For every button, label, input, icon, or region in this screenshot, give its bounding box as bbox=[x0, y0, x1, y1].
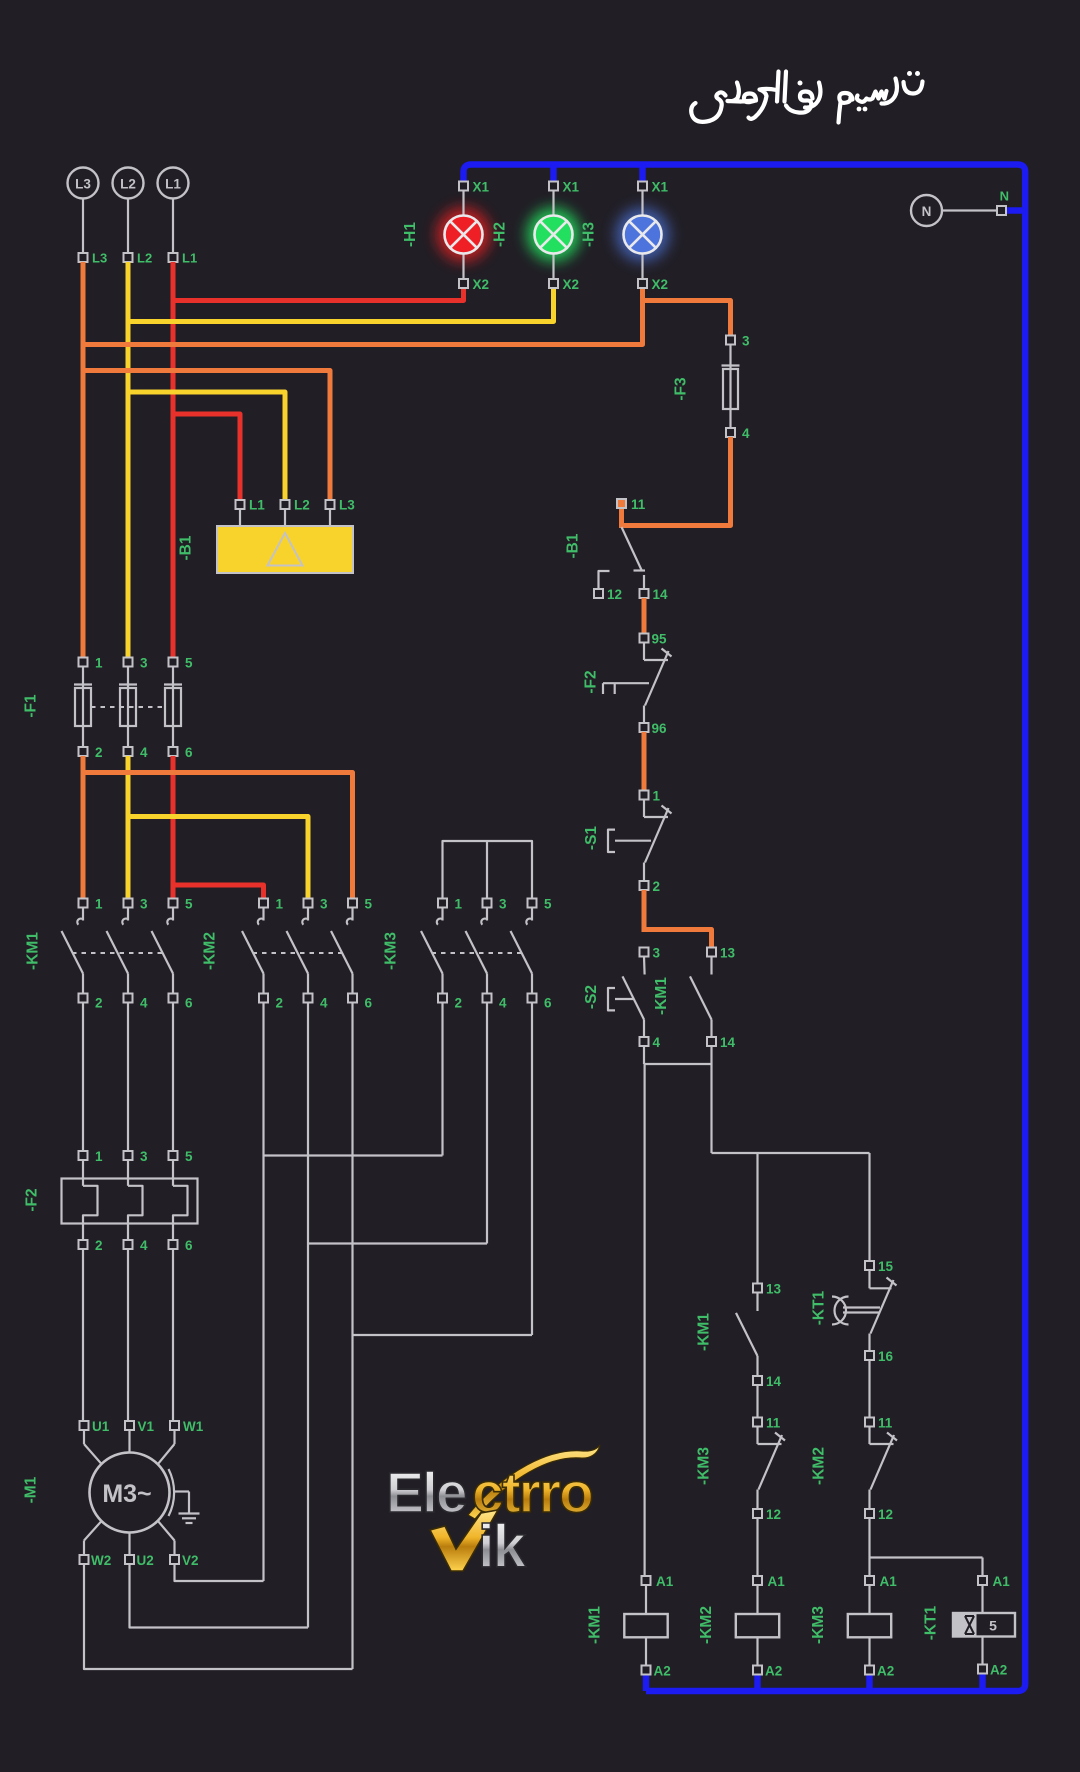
svg-text:N: N bbox=[922, 204, 932, 219]
svg-text:15: 15 bbox=[878, 1259, 894, 1274]
wire KM1:4 to F2:3 bbox=[127, 1002, 129, 1151]
svg-text:-M1: -M1 bbox=[23, 1476, 40, 1503]
source terminal circle L3 bbox=[68, 168, 108, 266]
wire KM2:4 + KM3:4 to motor U2 bbox=[307, 1002, 309, 1628]
svg-text:-KM1: -KM1 bbox=[587, 1606, 604, 1644]
svg-text:L2: L2 bbox=[120, 177, 136, 192]
wire blue drop coil KM3 A2 bbox=[866, 1673, 873, 1691]
wire blue drop coil KT1 A2 bbox=[979, 1673, 986, 1691]
contactor KM1 aux NO contact 13-14 (hold-in) bbox=[690, 946, 736, 1051]
svg-text:L3: L3 bbox=[92, 251, 107, 266]
svg-text:11: 11 bbox=[766, 1416, 781, 1431]
contactor KM3 NC interlock contact 11-12 bbox=[753, 1416, 785, 1523]
svg-text:-S2: -S2 bbox=[583, 985, 600, 1009]
svg-text:-KM2: -KM2 bbox=[698, 1606, 715, 1644]
wire KM2:2 + KM3:2 to motor V2 bbox=[262, 1002, 264, 1581]
svg-text:-KM1: -KM1 bbox=[696, 1313, 713, 1351]
svg-text:-KM1: -KM1 bbox=[653, 977, 670, 1015]
thermal overload relay F2 bbox=[62, 1149, 198, 1253]
wire F2:6 to W1 bbox=[172, 1249, 174, 1421]
wire L2 phase (yellow) vertical bbox=[126, 262, 131, 658]
svg-text:-H1: -H1 bbox=[402, 222, 419, 247]
svg-text:V1: V1 bbox=[138, 1419, 155, 1434]
contactor KM3 main contacts bbox=[421, 897, 552, 1011]
svg-text:3: 3 bbox=[653, 946, 661, 961]
start pushbutton S2 (NO) 3-4 bbox=[608, 946, 661, 1051]
wire L1 branch to lamp H1 (red) bbox=[173, 284, 464, 301]
wire L1 branch to B1 box (red) bbox=[173, 414, 240, 500]
motor M1 (M3~) bbox=[80, 1419, 204, 1568]
svg-text:3: 3 bbox=[140, 656, 148, 671]
svg-text:L2: L2 bbox=[137, 251, 152, 266]
svg-text:6: 6 bbox=[185, 996, 193, 1011]
svg-text:2: 2 bbox=[276, 996, 284, 1011]
svg-text:-F3: -F3 bbox=[673, 377, 690, 401]
measuring device B1 (yellow box with delta) bbox=[217, 498, 355, 574]
wire F1:2 to KM1:1 (orange) bbox=[81, 756, 86, 899]
svg-text:M3~: M3~ bbox=[102, 1480, 151, 1508]
svg-text:X2: X2 bbox=[652, 277, 669, 292]
wire L2 branch to B1 box (yellow) bbox=[128, 392, 285, 500]
contactor KM2 main contacts bbox=[242, 897, 373, 1011]
svg-text:5: 5 bbox=[365, 897, 373, 912]
svg-text:3: 3 bbox=[140, 897, 148, 912]
wire L1 phase (red) vertical bbox=[171, 262, 176, 658]
svg-text:4: 4 bbox=[140, 996, 148, 1011]
svg-text:14: 14 bbox=[766, 1374, 782, 1389]
wire blue drop coil KM2 A2 bbox=[754, 1673, 761, 1691]
svg-text:X2: X2 bbox=[563, 277, 580, 292]
svg-text:-S1: -S1 bbox=[583, 826, 600, 851]
thermal relay F2 NC contact 95-96 bbox=[603, 632, 672, 737]
svg-text:2: 2 bbox=[95, 745, 103, 760]
svg-text:1: 1 bbox=[455, 897, 463, 912]
svg-text:N: N bbox=[1000, 189, 1009, 204]
wire F2:2 to U1 bbox=[82, 1249, 84, 1421]
wire KT1:16 to KM2:11 bbox=[868, 1360, 870, 1418]
contactor KM1 aux NO contact 13-14 (to KM2) bbox=[736, 1282, 782, 1390]
wire branch to KM2:5 (orange) bbox=[83, 773, 353, 900]
source terminal circle L2 bbox=[113, 168, 153, 266]
wire blue drop to H3 X1 bbox=[639, 165, 646, 189]
svg-text:3: 3 bbox=[140, 1149, 148, 1164]
svg-text:3: 3 bbox=[742, 334, 750, 349]
svg-text:A2: A2 bbox=[990, 1663, 1007, 1678]
svg-text:-H2: -H2 bbox=[492, 222, 509, 247]
svg-text:96: 96 bbox=[652, 721, 668, 736]
svg-text:A2: A2 bbox=[654, 1664, 671, 1679]
wire KM1:6 to F2:5 bbox=[172, 1002, 174, 1151]
svg-text:12: 12 bbox=[607, 587, 622, 602]
svg-text:V2: V2 bbox=[182, 1553, 199, 1568]
svg-text:W1: W1 bbox=[183, 1419, 204, 1434]
wire blue drop coil KM1 A2 bbox=[643, 1673, 650, 1691]
svg-text:-KM2: -KM2 bbox=[811, 1447, 828, 1485]
svg-text:Ele: Ele bbox=[386, 1461, 466, 1525]
svg-text:95: 95 bbox=[652, 632, 668, 647]
svg-text:X1: X1 bbox=[473, 180, 490, 195]
wire KM1:2 to F2:1 bbox=[82, 1002, 84, 1151]
svg-text:1: 1 bbox=[276, 897, 284, 912]
wire blue N terminal link bbox=[1004, 207, 1025, 214]
timer KT1 timed NC contact 15-16 bbox=[832, 1259, 897, 1364]
wire KM3:12 to KM2 coil A1 bbox=[756, 1518, 758, 1576]
wire branch to KM2:1 (red) bbox=[173, 885, 264, 899]
svg-text:2: 2 bbox=[653, 879, 661, 894]
svg-text:A2: A2 bbox=[765, 1664, 782, 1679]
svg-text:4: 4 bbox=[140, 1238, 148, 1253]
svg-text:X2: X2 bbox=[473, 277, 490, 292]
ElectroTik logo bbox=[386, 1445, 600, 1580]
wire L3 branch to lamp H3 and fuse F3 (orange) bbox=[83, 284, 643, 345]
svg-text:5: 5 bbox=[989, 1618, 997, 1634]
wire L3 phase (orange) vertical bbox=[81, 262, 86, 658]
neutral source circle N bbox=[911, 189, 1009, 227]
svg-text:5: 5 bbox=[185, 656, 193, 671]
svg-text:-KM1: -KM1 bbox=[25, 932, 42, 970]
wire V2 to KM2:2 bbox=[175, 1564, 264, 1581]
wire star bridge over KM3 bbox=[443, 841, 533, 899]
svg-text:A1: A1 bbox=[993, 1574, 1011, 1589]
float/pressure switch B1 contact 11-12-14 bbox=[594, 497, 668, 602]
svg-text:X1: X1 bbox=[652, 180, 669, 195]
svg-text:12: 12 bbox=[766, 1507, 781, 1522]
svg-text:L1: L1 bbox=[182, 251, 197, 266]
svg-text:13: 13 bbox=[766, 1282, 782, 1297]
source terminal circle L1 bbox=[158, 168, 198, 266]
timer coil KT1 with setting 5 bbox=[953, 1574, 1015, 1678]
wire branch to KM2/KT1 rungs bbox=[710, 1064, 712, 1153]
svg-text:L2: L2 bbox=[294, 498, 310, 513]
svg-text:-KM2: -KM2 bbox=[202, 932, 219, 970]
svg-text:6: 6 bbox=[365, 996, 373, 1011]
svg-text:2: 2 bbox=[95, 1238, 103, 1253]
svg-text:4: 4 bbox=[499, 996, 507, 1011]
svg-text:13: 13 bbox=[720, 946, 736, 961]
svg-text:1: 1 bbox=[95, 1149, 103, 1164]
wire KM1:14 to KM3:11 bbox=[756, 1385, 758, 1418]
svg-text:-F2: -F2 bbox=[583, 670, 600, 693]
wire S2:4 / KM1:14 junction to KM1 coil bbox=[643, 1046, 645, 1064]
wire KM2:6 + KM3:6 to motor W2 bbox=[351, 1002, 353, 1669]
svg-text:-B1: -B1 bbox=[565, 533, 582, 558]
indicator lamp H1 bbox=[437, 180, 491, 293]
svg-text:4: 4 bbox=[653, 1035, 661, 1050]
svg-text:4: 4 bbox=[140, 745, 148, 760]
svg-text:L1: L1 bbox=[249, 498, 265, 513]
svg-text:6: 6 bbox=[185, 745, 193, 760]
svg-text:6: 6 bbox=[544, 996, 552, 1011]
svg-text:A1: A1 bbox=[768, 1574, 786, 1589]
svg-text:3: 3 bbox=[499, 897, 507, 912]
svg-text:-KM3: -KM3 bbox=[696, 1447, 713, 1485]
contactor KM1 main contacts bbox=[62, 897, 194, 1011]
svg-text:2: 2 bbox=[455, 996, 463, 1011]
wire F2:96 to S1:1 (orange) bbox=[642, 732, 647, 791]
svg-text:-H3: -H3 bbox=[581, 222, 598, 247]
stop pushbutton S1 (NC) 1-2 bbox=[608, 789, 672, 895]
svg-text:L1: L1 bbox=[165, 177, 181, 192]
wire blue drop to H2 X1 bbox=[550, 165, 557, 189]
coil KM1 bbox=[624, 1574, 673, 1679]
wire W2 to KM2:6 bbox=[84, 1564, 353, 1669]
svg-text:1: 1 bbox=[95, 656, 103, 671]
svg-text:6: 6 bbox=[185, 1238, 193, 1253]
svg-text:U2: U2 bbox=[137, 1553, 154, 1568]
svg-text:2: 2 bbox=[95, 996, 103, 1011]
svg-text:1: 1 bbox=[95, 897, 103, 912]
wire B1:14 to F2:95 (orange) bbox=[642, 598, 647, 634]
svg-text:-KM3: -KM3 bbox=[810, 1606, 827, 1644]
svg-text:11: 11 bbox=[631, 497, 646, 512]
wire F1:4 to KM1:3 (yellow) bbox=[126, 756, 131, 899]
wire N bus (blue): top rail, right rail, bottom rail bbox=[464, 165, 1026, 1692]
svg-text:11: 11 bbox=[878, 1416, 893, 1431]
wire KM2:12 to KM3 coil A1 and KT1 coil A1 bbox=[868, 1518, 870, 1576]
wire F2:4 to V1 bbox=[127, 1249, 129, 1421]
svg-text:-KM3: -KM3 bbox=[383, 932, 400, 970]
svg-text:14: 14 bbox=[720, 1035, 736, 1050]
svg-text:-F2: -F2 bbox=[24, 1188, 41, 1211]
wire L3 branch to B1 box (orange) bbox=[83, 371, 330, 501]
wire F1:6 to KM1:5 (red) bbox=[171, 756, 176, 899]
coil KM3 bbox=[848, 1574, 897, 1679]
svg-text:5: 5 bbox=[544, 897, 552, 912]
svg-text:A2: A2 bbox=[877, 1664, 894, 1679]
motor earth connection and ground symbol bbox=[169, 1469, 200, 1523]
svg-text:14: 14 bbox=[653, 587, 669, 602]
fuse F3 bbox=[722, 334, 751, 442]
svg-text:4: 4 bbox=[320, 996, 328, 1011]
svg-text:L3: L3 bbox=[75, 177, 91, 192]
svg-text:4: 4 bbox=[742, 426, 750, 441]
svg-text:A1: A1 bbox=[656, 1574, 674, 1589]
coil KM2 bbox=[736, 1574, 785, 1679]
svg-text:-KT1: -KT1 bbox=[811, 1290, 828, 1325]
wire U2 to KM2:4 bbox=[130, 1564, 309, 1628]
svg-text:U1: U1 bbox=[92, 1419, 110, 1434]
svg-text:-B1: -B1 bbox=[178, 535, 195, 560]
svg-text:12: 12 bbox=[878, 1507, 893, 1522]
svg-text:16: 16 bbox=[878, 1349, 894, 1364]
svg-text:ik: ik bbox=[478, 1513, 527, 1580]
svg-text:3: 3 bbox=[320, 897, 328, 912]
svg-text:1: 1 bbox=[653, 789, 661, 804]
indicator lamp H3 bbox=[616, 180, 670, 293]
fuse group F1 bbox=[74, 656, 193, 761]
wire S1:2 to S2:3 and KM1:13 (orange) bbox=[642, 890, 647, 932]
signature text (Arabic calligraphy) bbox=[691, 71, 922, 123]
wire L2 branch to lamp H2 (yellow) bbox=[128, 284, 554, 322]
wire branch to KM2:3 (yellow) bbox=[128, 817, 308, 900]
svg-text:X1: X1 bbox=[563, 180, 580, 195]
svg-text:5: 5 bbox=[185, 897, 193, 912]
wire F3:4 to B1:11 (orange) bbox=[622, 437, 731, 526]
svg-text:5: 5 bbox=[185, 1149, 193, 1164]
svg-text:-KT1: -KT1 bbox=[923, 1605, 940, 1640]
svg-text:L3: L3 bbox=[339, 498, 355, 513]
svg-text:W2: W2 bbox=[91, 1553, 111, 1568]
svg-text:-F1: -F1 bbox=[23, 694, 40, 718]
svg-text:A1: A1 bbox=[880, 1574, 898, 1589]
indicator lamp H2 bbox=[527, 180, 581, 293]
contactor KM2 NC interlock contact 11-12 bbox=[865, 1416, 897, 1523]
